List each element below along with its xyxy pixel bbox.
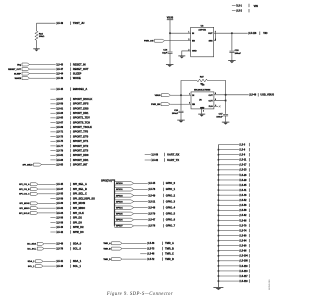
node GND pin L5-3 — [218, 144, 239, 146]
ground C10 — [177, 119, 185, 121]
node GPIO2 row — [115, 194, 134, 197]
svg-text:L5-113: L5-113 — [240, 271, 248, 273]
wire OUT2 — [214, 100, 226, 102]
svg-text:TMR_B: TMR_B — [165, 246, 174, 250]
svg-text:L5-76: L5-76 — [149, 189, 156, 191]
node GND pin L5-66 — [218, 219, 239, 221]
svg-text:L5-62: L5-62 — [240, 215, 247, 217]
svg-text:SPI_MISO: SPI_MISO — [19, 208, 29, 210]
node GPIO0 row — [115, 182, 134, 185]
svg-text:L5-62: L5-62 — [152, 160, 159, 162]
svg-text:SPI_CS_B: SPI_CS_B — [19, 189, 30, 191]
node GND pin L5-104 — [218, 255, 239, 257]
svg-text:L5-83: L5-83 — [57, 160, 64, 162]
svg-text:SPI_CLK: SPI_CLK — [73, 211, 84, 215]
node SPW_D3 row — [50, 231, 55, 233]
svg-text:GPIO1: GPIO1 — [116, 189, 123, 191]
node SPI_D2 row — [50, 217, 55, 219]
ground C16 — [166, 63, 174, 65]
node GND pin L5-35 — [218, 184, 239, 186]
svg-text:L5-58: L5-58 — [152, 154, 159, 156]
svg-text:L5-39: L5-39 — [57, 198, 64, 200]
svg-text:L5-32: L5-32 — [57, 208, 64, 210]
svg-text:GPIO6: GPIO6 — [116, 220, 123, 222]
node SPORT_RFS row — [50, 103, 55, 105]
svg-text:0Ω: 0Ω — [200, 84, 203, 86]
node GND pin L5-46 — [218, 194, 239, 196]
node UART_TX row — [145, 159, 151, 161]
svg-text:L5-73: L5-73 — [148, 248, 155, 250]
svg-text:SPI_MOSI: SPI_MOSI — [73, 201, 86, 205]
svg-text:L5-1: L5-1 — [237, 5, 242, 7]
node TMR_C row — [140, 253, 146, 255]
svg-text:100nF: 100nF — [216, 117, 223, 119]
svg-text:SCL_1: SCL_1 — [28, 266, 35, 268]
svg-text:SLEEP: SLEEP — [14, 73, 22, 75]
node SPORT_TSCLK row — [50, 126, 55, 128]
node SPORT_DD1 row — [50, 159, 55, 161]
svg-text:SPI_SEL0: SPI_SEL0 — [23, 164, 34, 166]
node SPORT_TFS row — [50, 131, 55, 133]
wire U3 GND — [201, 109, 203, 114]
node GND pin L5-62 — [218, 214, 239, 216]
svg-text:2: 2 — [203, 111, 204, 113]
svg-text:SPORT_DD1: SPORT_DD1 — [73, 158, 89, 162]
svg-text:L5-8: L5-8 — [240, 155, 245, 157]
svg-text:L5-96: L5-96 — [240, 251, 247, 253]
svg-text:L5-59: L5-59 — [57, 104, 64, 106]
svg-text:TMR_C: TMR_C — [165, 252, 174, 256]
svg-text:100nF: 100nF — [235, 53, 242, 55]
node GPIO7 row — [115, 224, 134, 227]
svg-text:SPORT1_TDV: SPORT1_TDV — [73, 116, 90, 120]
wire OUT1 — [214, 94, 226, 96]
svg-text:GPIO_4: GPIO_4 — [166, 205, 176, 209]
svg-text:SPORT_DT1: SPORT_DT1 — [73, 139, 89, 143]
svg-text:GND: GND — [200, 107, 205, 109]
wire C10 gnd — [180, 113, 182, 120]
svg-text:SPORT_DT3: SPORT_DT3 — [73, 148, 89, 152]
svg-text:L5-63: L5-63 — [57, 113, 64, 115]
wire TRST net — [37, 22, 56, 24]
svg-text:L5-72: L5-72 — [148, 259, 155, 261]
svg-text:L5-46: L5-46 — [250, 94, 257, 97]
wire C28 gnd — [231, 52, 233, 60]
junction OUT — [231, 32, 233, 34]
svg-text:L5-116: L5-116 — [249, 33, 257, 35]
capacitor C10 — [180, 95, 182, 110]
svg-text:L5-47: L5-47 — [57, 68, 64, 71]
junction IN — [180, 94, 182, 96]
svg-text:SPORT_TSCLK: SPORT_TSCLK — [73, 125, 92, 129]
svg-text:WAKE: WAKE — [15, 77, 22, 80]
svg-text:FLG: FLG — [209, 106, 213, 108]
svg-text:SPI_CS_C: SPI_CS_C — [19, 194, 30, 196]
svg-text:L5-58: L5-58 — [240, 210, 247, 212]
svg-text:L5-74: L5-74 — [240, 229, 247, 232]
node GND pin L5-23 — [218, 169, 239, 171]
wire to IN — [170, 32, 191, 34]
node SPORT_DT0 row — [50, 136, 55, 138]
node VIO pin L5-116 — [247, 32, 250, 35]
svg-text:GPIO[7:0]: GPIO[7:0] — [101, 180, 112, 182]
svg-text:L5-38: L5-38 — [57, 222, 64, 224]
node SPORT_RSCLK row — [50, 98, 55, 100]
svg-text:L5-85: L5-85 — [57, 164, 64, 166]
node GND pin L5-6 — [218, 149, 239, 151]
svg-text:GPIO4: GPIO4 — [116, 206, 123, 209]
svg-text:L5-41: L5-41 — [57, 260, 64, 263]
svg-text:L5-35: L5-35 — [240, 185, 247, 187]
svg-text:SLEEP: SLEEP — [73, 71, 82, 75]
wire OUT to VIO — [216, 32, 248, 34]
node GPIO3 row — [115, 200, 134, 203]
wire to ground — [36, 40, 38, 48]
svg-text:SPORT_INT: SPORT_INT — [73, 162, 88, 166]
svg-text:L5-69: L5-69 — [57, 127, 64, 129]
node GND pin L5-58 — [218, 209, 239, 211]
svg-text:WAKE: WAKE — [73, 76, 81, 80]
svg-text:UART_TX: UART_TX — [167, 158, 179, 162]
svg-text:L5-79: L5-79 — [149, 214, 156, 216]
svg-text:L5-90: L5-90 — [240, 246, 247, 248]
svg-text:GPIO7: GPIO7 — [116, 226, 123, 228]
svg-text:L5-70: L5-70 — [240, 225, 247, 227]
svg-text:SPI_SEL_A: SPI_SEL_A — [73, 182, 87, 186]
svg-text:L5-104: L5-104 — [240, 255, 248, 258]
node SPI_SEL1/SPI_SS row — [50, 198, 55, 200]
node GND pin L5-56 — [218, 204, 239, 206]
svg-text:L5-65: L5-65 — [57, 118, 64, 120]
svg-text:L5-61: L5-61 — [57, 108, 64, 110]
capacitor C28 — [231, 33, 233, 50]
svg-text:SPI_SEL1/SPI_SS: SPI_SEL1/SPI_SS — [73, 196, 95, 200]
wire VBUS_IN to IN — [171, 94, 192, 96]
wire GND bus — [217, 145, 219, 288]
svg-text:RESET_IN: RESET_IN — [73, 62, 86, 66]
svg-text:ADP151: ADP151 — [198, 28, 206, 31]
svg-text:L5-110: L5-110 — [240, 266, 248, 268]
svg-text:SPORT5_TCH: SPORT5_TCH — [73, 120, 90, 124]
svg-text:L5-49: L5-49 — [57, 77, 64, 80]
svg-text:TMR_A: TMR_A — [165, 241, 174, 245]
svg-text:VIN: VIN — [254, 5, 258, 8]
svg-text:L5-79: L5-79 — [57, 150, 64, 152]
node GND pin L5-117 — [218, 275, 239, 277]
svg-text:SPI_D3: SPI_D3 — [73, 220, 82, 224]
node GND pin L5-96 — [218, 250, 239, 252]
svg-text:L5-46: L5-46 — [149, 206, 156, 209]
wire PWR_ON to EN — [165, 40, 191, 42]
svg-text:L5-49: L5-49 — [149, 194, 156, 197]
node SPORT_DT1 row — [50, 140, 55, 142]
wire VBUS down — [169, 20, 171, 34]
svg-text:L5-40: L5-40 — [57, 226, 64, 229]
svg-text:TMR_D: TMR_D — [165, 257, 174, 261]
svg-text:L5-78: L5-78 — [57, 248, 64, 250]
svg-text:GPIO3: GPIO3 — [116, 201, 123, 203]
svg-text:I2C_SDA: I2C_SDA — [27, 243, 36, 246]
svg-text:GPIO_5: GPIO_5 — [166, 212, 176, 216]
node VIN pin L5-2 — [232, 10, 236, 12]
svg-text:BMODE1_A: BMODE1_A — [73, 87, 88, 91]
node VIN pin L5-1 — [232, 4, 236, 6]
node SPORT_DR1 row — [50, 112, 55, 114]
node GND pin L5-17 — [218, 164, 239, 166]
svg-text:GPIO_6: GPIO_6 — [166, 218, 176, 222]
node SPORT_DD0 row — [50, 154, 55, 156]
svg-text:1: 1 — [188, 32, 189, 34]
svg-text:L5-2: L5-2 — [237, 11, 242, 13]
svg-text:L5-26: L5-26 — [240, 175, 247, 177]
svg-text:L5-44: L5-44 — [57, 72, 64, 75]
svg-text:L5-75: L5-75 — [57, 141, 64, 143]
wire C17 gnd — [225, 116, 227, 122]
svg-text:L5-77: L5-77 — [57, 146, 64, 148]
svg-text:RESET_OUT: RESET_OUT — [73, 67, 89, 71]
svg-text:GND: GND — [192, 51, 197, 53]
bus GPIO vertical — [112, 180, 115, 226]
svg-text:L5-45: L5-45 — [57, 88, 64, 91]
node SPW_D2 row — [50, 226, 55, 228]
svg-text:L5-80: L5-80 — [240, 235, 247, 237]
node SPORT_DT3 row — [50, 150, 55, 152]
svg-text:VBUS: VBUS — [155, 95, 162, 97]
svg-text:L5-81: L5-81 — [57, 155, 64, 157]
node UART_RX row — [145, 154, 151, 156]
svg-text:L5-21: L5-21 — [149, 201, 156, 203]
node pin L5-49 TRST_JU — [55, 22, 58, 25]
wire PWR_EN to EN — [170, 103, 191, 105]
svg-text:UART_RX: UART_RX — [167, 152, 180, 156]
svg-text:SPI_SCLK: SPI_SCLK — [19, 213, 30, 215]
svg-text:GPIO_2: GPIO_2 — [166, 193, 176, 197]
node GND pin L5-110 — [218, 265, 239, 267]
node GND pin L5-11 — [218, 159, 239, 161]
svg-text:L5-56: L5-56 — [240, 205, 247, 207]
node GND pin L5-29 — [218, 179, 239, 181]
svg-text:OUT: OUT — [208, 33, 213, 35]
wire FLG stub — [214, 105, 218, 107]
svg-text:L5-119: L5-119 — [240, 281, 248, 283]
node GND pin L5-84 — [218, 240, 239, 242]
svg-text:L5-34: L5-34 — [57, 212, 64, 215]
svg-text:SDA_1: SDA_1 — [73, 259, 82, 263]
capacitor C17 — [223, 114, 228, 116]
svg-text:GPIO_3: GPIO_3 — [166, 199, 176, 203]
node USB_VBUS pin — [248, 94, 251, 97]
svg-text:PWR_EN: PWR_EN — [151, 104, 161, 106]
resistor R27 — [197, 79, 207, 82]
svg-text:GPIO_1: GPIO_1 — [166, 187, 176, 191]
svg-text:L5-45: L5-45 — [149, 182, 156, 185]
svg-text:L5-108: L5-108 — [240, 261, 248, 263]
svg-text:TMR_D: TMR_D — [103, 259, 111, 261]
svg-text:TRST_JU: TRST_JU — [73, 21, 85, 25]
svg-text:L5-67: L5-67 — [57, 122, 64, 124]
svg-text:L5-84: L5-84 — [240, 239, 247, 242]
svg-text:SPI_SEL_B: SPI_SEL_B — [73, 187, 87, 191]
svg-text:SPORT_DR0: SPORT_DR0 — [73, 106, 89, 110]
node SPORT5_TCH row — [50, 122, 55, 124]
node BMODE1_A row — [50, 88, 55, 90]
svg-text:SDA_0: SDA_0 — [73, 242, 82, 246]
svg-text:SCL_0: SCL_0 — [73, 246, 82, 250]
svg-text:L5-41: L5-41 — [240, 189, 247, 192]
svg-text:L5-57: L5-57 — [57, 99, 64, 101]
svg-text:L5-45: L5-45 — [57, 183, 64, 186]
wire U2 GND — [182, 51, 191, 56]
node GPIO5 row — [115, 212, 134, 215]
node GND pin L5-74 — [218, 230, 239, 232]
svg-text:GPIO2: GPIO2 — [116, 195, 123, 197]
wire OUT vert — [225, 95, 227, 114]
svg-text:L5-6: L5-6 — [240, 150, 245, 152]
svg-text:11056-009: 11056-009 — [269, 279, 271, 290]
node GND pin L5-113 — [218, 270, 239, 272]
svg-text:L5-47: L5-47 — [149, 219, 156, 222]
svg-text:SPORT_TFS: SPORT_TFS — [73, 130, 89, 134]
capacitor C16 — [169, 33, 171, 51]
junction OUT2 — [225, 100, 227, 102]
svg-text:GPIO0: GPIO0 — [116, 183, 123, 185]
svg-text:L5-66: L5-66 — [240, 220, 247, 222]
svg-text:L5-46: L5-46 — [240, 194, 247, 197]
svg-text:L5-23: L5-23 — [240, 170, 247, 172]
svg-text:L5-46: L5-46 — [148, 242, 155, 245]
svg-text:L5-3: L5-3 — [240, 144, 245, 146]
ground U2 — [178, 55, 185, 57]
svg-text:L5-17: L5-17 — [240, 165, 247, 167]
svg-text:TMR_B: TMR_B — [103, 248, 111, 250]
svg-text:RESET_OUT: RESET_OUT — [8, 69, 22, 71]
svg-text:SPORT_RFS: SPORT_RFS — [73, 102, 89, 106]
node SPORT_DR0 row — [50, 108, 55, 110]
wire USB_VBUS — [226, 94, 249, 96]
svg-text:SPORT_DD0: SPORT_DD0 — [73, 153, 89, 157]
svg-text:L5-29: L5-29 — [240, 180, 247, 182]
svg-text:SPI_MOSI: SPI_MOSI — [19, 203, 30, 205]
node SPORT1_TDV row — [50, 117, 55, 119]
svg-text:SPI_SEL_C: SPI_SEL_C — [73, 192, 87, 196]
svg-text:MIC2025-1YM6M: MIC2025-1YM6M — [194, 90, 210, 92]
svg-text:10kΩ: 10kΩ — [39, 36, 45, 38]
svg-text:SPW_D2: SPW_D2 — [73, 225, 84, 229]
junction OUT1 — [225, 94, 227, 96]
svg-text:IRQ: IRQ — [17, 64, 21, 66]
svg-text:L5-42: L5-42 — [57, 231, 64, 234]
svg-text:SPORT_DT2: SPORT_DT2 — [73, 144, 89, 148]
svg-text:EN: EN — [192, 41, 195, 43]
ground U3 — [198, 113, 205, 115]
node SPI_D3 row — [50, 221, 55, 223]
svg-text:L5-73: L5-73 — [57, 136, 64, 138]
node GND pin L5-108 — [218, 260, 239, 262]
op-amp U2 box — [191, 27, 214, 57]
svg-text:L5-11: L5-11 — [240, 160, 247, 162]
wire OUT tie — [214, 32, 216, 34]
node GND pin L5-119 — [218, 280, 239, 282]
svg-text:SPORT_RSCLK: SPORT_RSCLK — [73, 97, 92, 101]
svg-text:L5-48: L5-48 — [57, 243, 64, 246]
node GND pin L5-52 — [218, 199, 239, 201]
node GND pin L5-90 — [218, 245, 239, 247]
svg-text:L5-117: L5-117 — [240, 276, 248, 278]
ground C28 — [228, 60, 236, 62]
node GPIO4 row — [115, 206, 134, 209]
svg-text:L5-30: L5-30 — [57, 203, 64, 205]
node GND pin L5-80 — [218, 235, 239, 237]
node GPIO1 row — [115, 188, 134, 191]
svg-text:PWR_ON: PWR_ON — [144, 41, 154, 43]
wire bypass left — [181, 81, 197, 96]
svg-text:L5-49: L5-49 — [57, 22, 64, 25]
svg-text:L5-43: L5-43 — [57, 265, 64, 268]
svg-text:L5-37: L5-37 — [57, 189, 64, 191]
svg-text:SPORT_DR1: SPORT_DR1 — [73, 111, 89, 115]
svg-text:VIO: VIO — [263, 32, 267, 35]
svg-text:100nF: 100nF — [172, 113, 179, 115]
svg-text:SPW_D3: SPW_D3 — [73, 230, 84, 234]
node SPORT_DT2 row — [50, 145, 55, 147]
ground R24 — [33, 48, 40, 50]
ground C17 — [222, 121, 230, 123]
svg-text:GPIO5: GPIO5 — [116, 214, 123, 216]
svg-text:L5-78: L5-78 — [149, 226, 156, 228]
node GND pin L5-41 — [218, 189, 239, 191]
svg-text:SPI_CS_A: SPI_CS_A — [19, 183, 30, 186]
svg-text:L5-52: L5-52 — [240, 200, 247, 202]
svg-text:SCL_1: SCL_1 — [73, 264, 82, 268]
svg-text:L5-43: L5-43 — [57, 63, 64, 66]
svg-text:USB_VBUS: USB_VBUS — [260, 94, 274, 97]
svg-text:L5-71: L5-71 — [57, 132, 64, 134]
node GND pin L5-26 — [218, 174, 239, 176]
svg-text:SPORT_DT0: SPORT_DT0 — [73, 134, 89, 138]
svg-text:Figure 9. SDP-S—Connector: Figure 9. SDP-S—Connector — [106, 292, 173, 297]
svg-text:L5-48: L5-48 — [148, 253, 155, 256]
transistor U3 box — [191, 92, 214, 109]
ground bus — [213, 286, 223, 288]
svg-text:3: 3 — [188, 39, 189, 41]
svg-text:SPI_MISO: SPI_MISO — [73, 206, 85, 210]
svg-text:SPI_D2: SPI_D2 — [73, 216, 82, 220]
svg-text:TMR_A: TMR_A — [103, 242, 111, 245]
svg-text:SDA_1: SDA_1 — [28, 260, 36, 263]
svg-text:GPIO_0: GPIO_0 — [166, 181, 176, 185]
svg-text:L5-36: L5-36 — [57, 218, 64, 220]
node GND pin L5-8 — [218, 154, 239, 156]
node GPIO6 row — [115, 218, 134, 221]
resistor R24 — [35, 31, 38, 40]
wire C16 gnd — [169, 53, 171, 64]
junction VBUS-IN — [169, 32, 171, 34]
svg-text:I2C_SCL: I2C_SCL — [27, 248, 36, 250]
wire bypass right — [207, 81, 225, 95]
svg-text:10µF: 10µF — [162, 53, 168, 55]
svg-text:GPIO_7: GPIO_7 — [166, 224, 176, 228]
svg-text:L5-35: L5-35 — [57, 194, 64, 196]
node GND pin L5-70 — [218, 224, 239, 226]
